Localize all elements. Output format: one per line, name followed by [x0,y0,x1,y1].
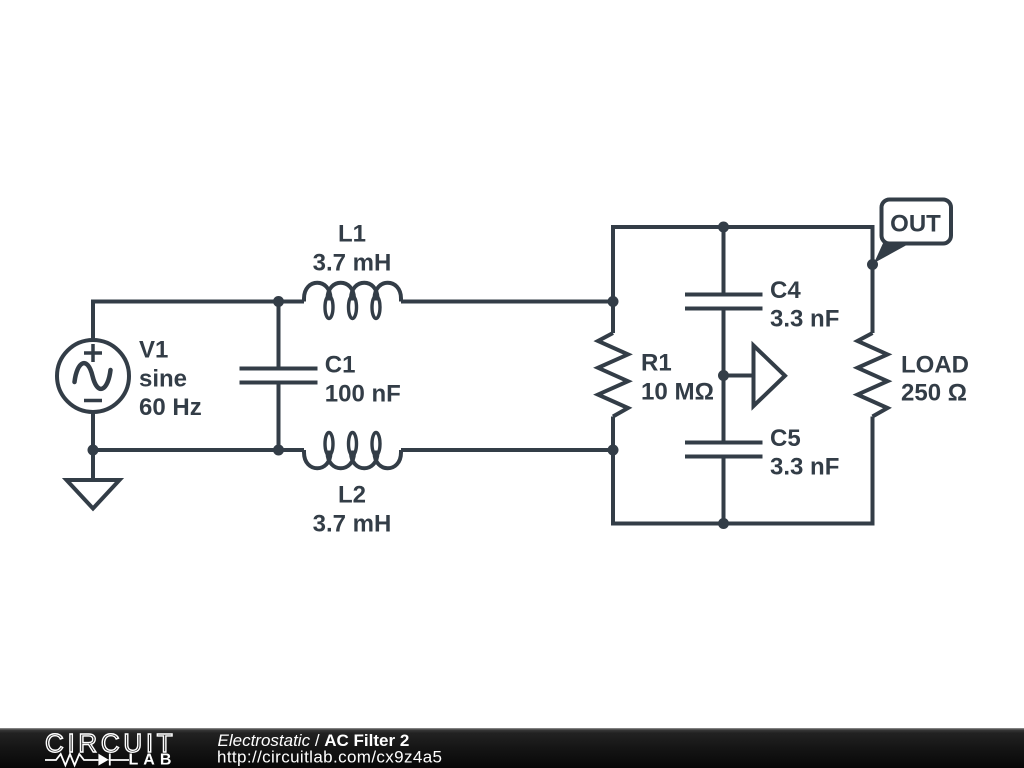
junction dot C1 top [273,296,284,307]
wire C1 top lead [277,302,281,369]
logo resistor-diode [45,754,129,766]
footer bar [0,728,1024,768]
junction dot C4 top [718,222,729,233]
svg-text:3.7 mH: 3.7 mH [313,249,392,276]
svg-text:C5: C5 [770,425,801,452]
wire LOAD lower lead [871,417,875,526]
wire L2 to R1 branch [401,448,613,452]
capacitor C5 [685,443,763,457]
svg-text:C4: C4 [770,277,801,304]
resistor LOAD [858,333,888,417]
junction dot mid [718,370,729,381]
svg-text:10 MΩ: 10 MΩ [641,379,714,406]
svg-text:C1: C1 [325,351,356,378]
svg-text:3.7 mH: 3.7 mH [313,510,392,537]
svg-text:L1: L1 [338,221,366,248]
svg-text:3.3 nF: 3.3 nF [770,454,839,481]
wire bottom-left rail [93,448,304,452]
junction dot ground [88,445,99,456]
resistor R1 [598,333,628,417]
buffer triangle U1 [754,346,786,407]
OUT callout tail [874,241,914,263]
svg-text:OUT: OUT [890,211,941,238]
junction dot L1/R1 [608,296,619,307]
wire LOAD upper lead [871,225,875,333]
wire C1 bottom lead [277,383,281,451]
wire L1 to R1 branch [401,300,613,304]
wire R1 lower lead [611,417,615,526]
svg-text:V1: V1 [139,337,168,364]
inductor L1 [304,283,401,302]
capacitor C1 [240,369,318,383]
svg-text:3.3 nF: 3.3 nF [770,306,839,333]
svg-text:sine: sine [139,365,187,392]
wire C4 to C5 link [722,309,726,443]
ground [67,480,120,509]
wire top rail [611,225,875,229]
svg-text:250 Ω: 250 Ω [901,380,967,407]
junction dot OUT [867,259,878,270]
junction dot C1 bottom [273,445,284,456]
wire C4 upper lead [722,227,726,295]
svg-text:LOAD: LOAD [901,351,969,378]
wire ground stub [91,450,95,480]
wire V1 bottom [91,412,95,450]
svg-text:R1: R1 [641,350,672,377]
wire R1 upper lead [611,225,615,333]
wire C5 lower lead [722,457,726,524]
svg-text:60 Hz: 60 Hz [139,394,202,421]
svg-text:L2: L2 [338,482,366,509]
voltage source V1 [57,340,129,412]
wire stub to buffer [724,374,754,378]
wire bottom rail [611,522,875,526]
junction dot C5 bottom [718,518,729,529]
wire top-left rail [93,302,304,341]
capacitor C4 [685,295,763,309]
junction dot L2/R1 [608,445,619,456]
inductor L2 [304,450,401,468]
OUT callout bubble [882,200,952,244]
svg-text:100 nF: 100 nF [325,381,401,408]
